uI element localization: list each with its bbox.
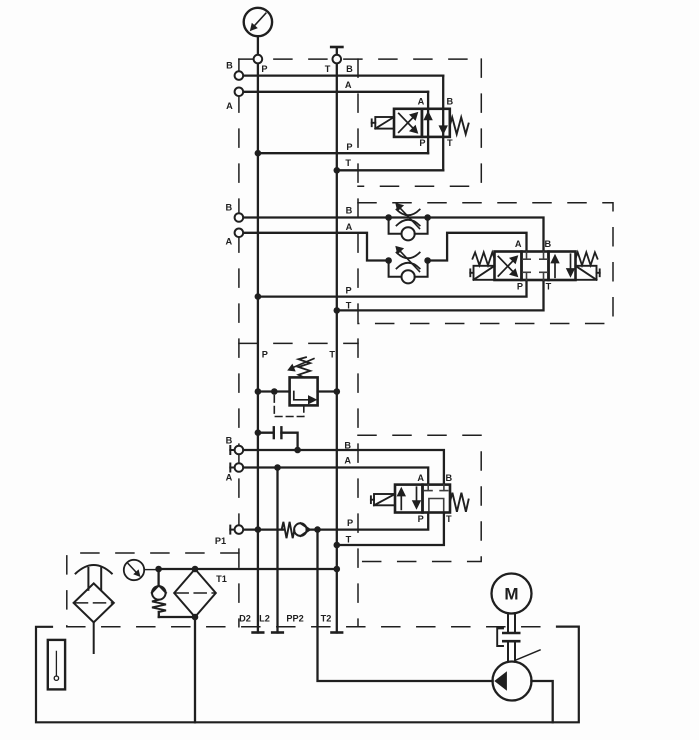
- junction T branch valve2: [334, 307, 341, 314]
- solenoid valve3: [371, 494, 395, 505]
- svg-text:B: B: [445, 473, 452, 483]
- svg-text:P: P: [346, 142, 352, 152]
- junction P branch valve2: [255, 293, 262, 300]
- junction T branch valve1: [334, 167, 341, 174]
- wire pump suction to tank: [531, 681, 552, 722]
- wire relief outlet: [318, 390, 337, 392]
- svg-text:T: T: [329, 349, 335, 359]
- valve2 closed-center stubs: [523, 252, 547, 281]
- junction L2 on A: [274, 464, 281, 471]
- pump triangle: [494, 671, 507, 690]
- valve2 body boxes: [495, 252, 576, 281]
- svg-text:A: A: [226, 101, 233, 111]
- wire filter drain to tank: [194, 617, 196, 722]
- svg-text:B: B: [346, 205, 353, 215]
- svg-text:P: P: [347, 518, 353, 528]
- labels mid ports: [215, 436, 233, 546]
- wire T branch to valve2: [337, 280, 544, 310]
- port A (section2): [235, 229, 244, 238]
- wire A to valve2: [244, 233, 389, 261]
- junction filter bottom: [192, 614, 199, 621]
- svg-text:L2: L2: [259, 614, 270, 624]
- svg-text:T: T: [447, 138, 453, 148]
- labels bottom ports: [216, 574, 331, 624]
- wire gauge stem: [257, 36, 259, 54]
- svg-text:P: P: [346, 285, 352, 295]
- filter: [174, 569, 216, 617]
- svg-text:A: A: [226, 473, 233, 483]
- relief valve internal arrow: [294, 392, 318, 405]
- valve1 down arrow B-T: [439, 125, 448, 135]
- power unit dashed boundary: [67, 553, 557, 627]
- wire PP2 line: [318, 530, 493, 681]
- svg-text:P: P: [261, 64, 267, 74]
- svg-text:A: A: [225, 236, 232, 246]
- coupling flanges: [503, 633, 519, 641]
- relief valve spring: [299, 357, 311, 377]
- junction PP2 on P1: [314, 526, 321, 533]
- port A (section4): [230, 463, 243, 472]
- check valve P1 spring: [282, 522, 295, 538]
- solenoid valve2 left: [470, 266, 494, 280]
- solenoid valve1: [372, 117, 394, 129]
- labels valve2 ports: [515, 239, 552, 291]
- port T (top) with plug: [331, 47, 342, 63]
- spring valve3: [450, 493, 469, 512]
- check valve P1 seat: [300, 523, 310, 536]
- manifold column right dashed edge: [357, 59, 359, 627]
- port A (top left): [235, 88, 244, 97]
- port B (section4): [230, 446, 243, 455]
- throttle check assembly 2 (on A line): [385, 246, 431, 284]
- junction disconnect on B: [294, 447, 301, 454]
- wire valve1 B-T through line: [442, 76, 444, 171]
- pump circle: [493, 662, 532, 701]
- svg-text:PP2: PP2: [286, 614, 303, 624]
- junction P1 on P main: [255, 526, 262, 533]
- wire T branch to valve1: [337, 169, 443, 171]
- section 2 dashed box (middle valve section): [358, 203, 613, 324]
- svg-text:P1: P1: [215, 536, 226, 546]
- breather filler: [74, 565, 114, 653]
- level gauge: [48, 640, 65, 690]
- wire L2 drain line: [276, 468, 278, 633]
- labels valve1 ports: [418, 97, 454, 148]
- svg-text:T: T: [345, 158, 351, 168]
- svg-text:A: A: [345, 80, 352, 90]
- disconnect bars: [273, 427, 275, 438]
- spring valve2 right: [576, 252, 598, 265]
- relief valve pilot line (dashed): [274, 392, 304, 417]
- throttle check assembly 1 (on B line): [385, 203, 431, 241]
- wire B to valve3: [244, 450, 444, 485]
- wire A to valve3: [244, 468, 429, 485]
- svg-text:T: T: [346, 534, 352, 544]
- svg-text:T2: T2: [321, 614, 332, 624]
- svg-text:B: B: [346, 64, 353, 74]
- port D2 cap: [253, 631, 264, 634]
- valve2 crossed arrows (left box): [498, 255, 518, 277]
- wire T1 line: [159, 568, 337, 570]
- manifold boundary top edge: [239, 58, 481, 60]
- valve3 up and down arrows (left box): [397, 487, 422, 510]
- wire disconnect left: [258, 432, 274, 434]
- svg-text:B: B: [446, 97, 453, 107]
- tank outline: [36, 627, 579, 723]
- svg-text:P: P: [419, 138, 425, 148]
- valve1 crossed arrows (left position): [399, 112, 419, 134]
- svg-text:B: B: [226, 436, 233, 446]
- labels section3 ports: [262, 349, 336, 359]
- label B section2 port: [225, 203, 232, 213]
- solenoid valve2 right: [576, 266, 600, 280]
- port P1: [230, 525, 243, 534]
- pressure gauge PG2: [124, 560, 144, 580]
- labels section4 ports: [344, 440, 353, 544]
- wire relief inlet: [258, 390, 290, 392]
- valve1 body boxes: [394, 109, 450, 137]
- svg-text:D2: D2: [239, 614, 251, 624]
- valve2 up and down arrows (right box): [550, 254, 575, 278]
- wire P1 to valve3: [244, 528, 283, 530]
- spring valve1: [450, 117, 469, 134]
- wire A continue to valve2: [428, 233, 527, 261]
- svg-text:A: A: [418, 97, 425, 107]
- section 4 dashed box (bottom valve section): [358, 435, 481, 561]
- wire D2 drain continuation: [257, 530, 259, 633]
- junction T1 check branch: [155, 566, 162, 573]
- svg-text:B: B: [344, 440, 351, 450]
- svg-text:B: B: [544, 239, 551, 249]
- svg-text:M: M: [504, 585, 518, 604]
- wire T branch valve3: [337, 513, 444, 546]
- svg-text:T1: T1: [216, 574, 227, 584]
- manifold boundary left edge: [238, 59, 240, 627]
- svg-text:T: T: [546, 281, 552, 291]
- pump drain slash: [517, 650, 541, 660]
- valve3 blocked stubs and bypass (right box): [424, 485, 447, 513]
- junction relief inlet on P: [255, 388, 262, 395]
- svg-text:A: A: [515, 239, 522, 249]
- junction relief pilot tap: [271, 388, 278, 395]
- svg-text:P: P: [517, 281, 523, 291]
- svg-text:A: A: [344, 455, 351, 465]
- svg-text:T: T: [325, 64, 331, 74]
- check valve bypass (vertical): [152, 569, 195, 617]
- wire P main line: [257, 64, 259, 530]
- labels main ports: [226, 60, 331, 111]
- labels valve3 ports: [417, 473, 452, 524]
- wire T main line: [336, 64, 338, 569]
- pump shaft lower: [508, 642, 515, 661]
- section 3 dashed divider (relief section top): [239, 342, 358, 344]
- relief valve body: [290, 377, 318, 405]
- wire P1 continue to valve3: [307, 513, 429, 530]
- valve3 body boxes: [395, 485, 450, 513]
- electric motor M: [492, 574, 532, 614]
- wire P branch to valve2: [258, 280, 527, 297]
- svg-text:B: B: [226, 60, 233, 70]
- svg-text:T: T: [446, 514, 452, 524]
- svg-text:P: P: [262, 349, 268, 359]
- svg-text:P: P: [418, 514, 424, 524]
- pressure gauge PG top: [244, 8, 272, 36]
- label A section2 port: [225, 236, 232, 246]
- relief valve adjust arrow: [294, 359, 314, 368]
- port T2 cap: [332, 631, 343, 634]
- wire A to valve1: [244, 91, 429, 93]
- motor shaft upper: [508, 613, 515, 632]
- svg-text:B: B: [225, 203, 232, 213]
- spring valve2 left: [473, 252, 495, 265]
- port B (top left): [235, 71, 244, 80]
- junction T1 filter top: [192, 566, 199, 573]
- junction P branch valve1: [255, 150, 262, 157]
- port B (section2): [235, 213, 244, 222]
- coupling bracket: [497, 628, 503, 646]
- junction T branch valve3: [334, 542, 341, 549]
- wire disconnect right to B line: [281, 433, 297, 450]
- wire T2 drain continuation: [336, 569, 338, 633]
- junction disconnect on P: [255, 429, 262, 436]
- wire B to valve1: [244, 74, 444, 76]
- junction relief outlet on T: [334, 388, 341, 395]
- labels section2 ports: [346, 205, 353, 310]
- section 1 dashed box (top valve section): [358, 59, 481, 186]
- wire P branch to valve1: [258, 152, 428, 154]
- wire B to valve2: [244, 218, 544, 252]
- check valve P1 ball: [294, 523, 307, 536]
- wire valve1 A-P through line: [427, 92, 429, 153]
- svg-text:A: A: [417, 473, 424, 483]
- junction T main on T1: [334, 566, 341, 573]
- port P (top): [254, 55, 263, 64]
- svg-text:A: A: [346, 222, 353, 232]
- valve1 up arrow P-A: [423, 111, 432, 121]
- labels section1 ports: [345, 64, 353, 168]
- svg-text:T: T: [346, 300, 352, 310]
- port L2 cap: [272, 631, 283, 634]
